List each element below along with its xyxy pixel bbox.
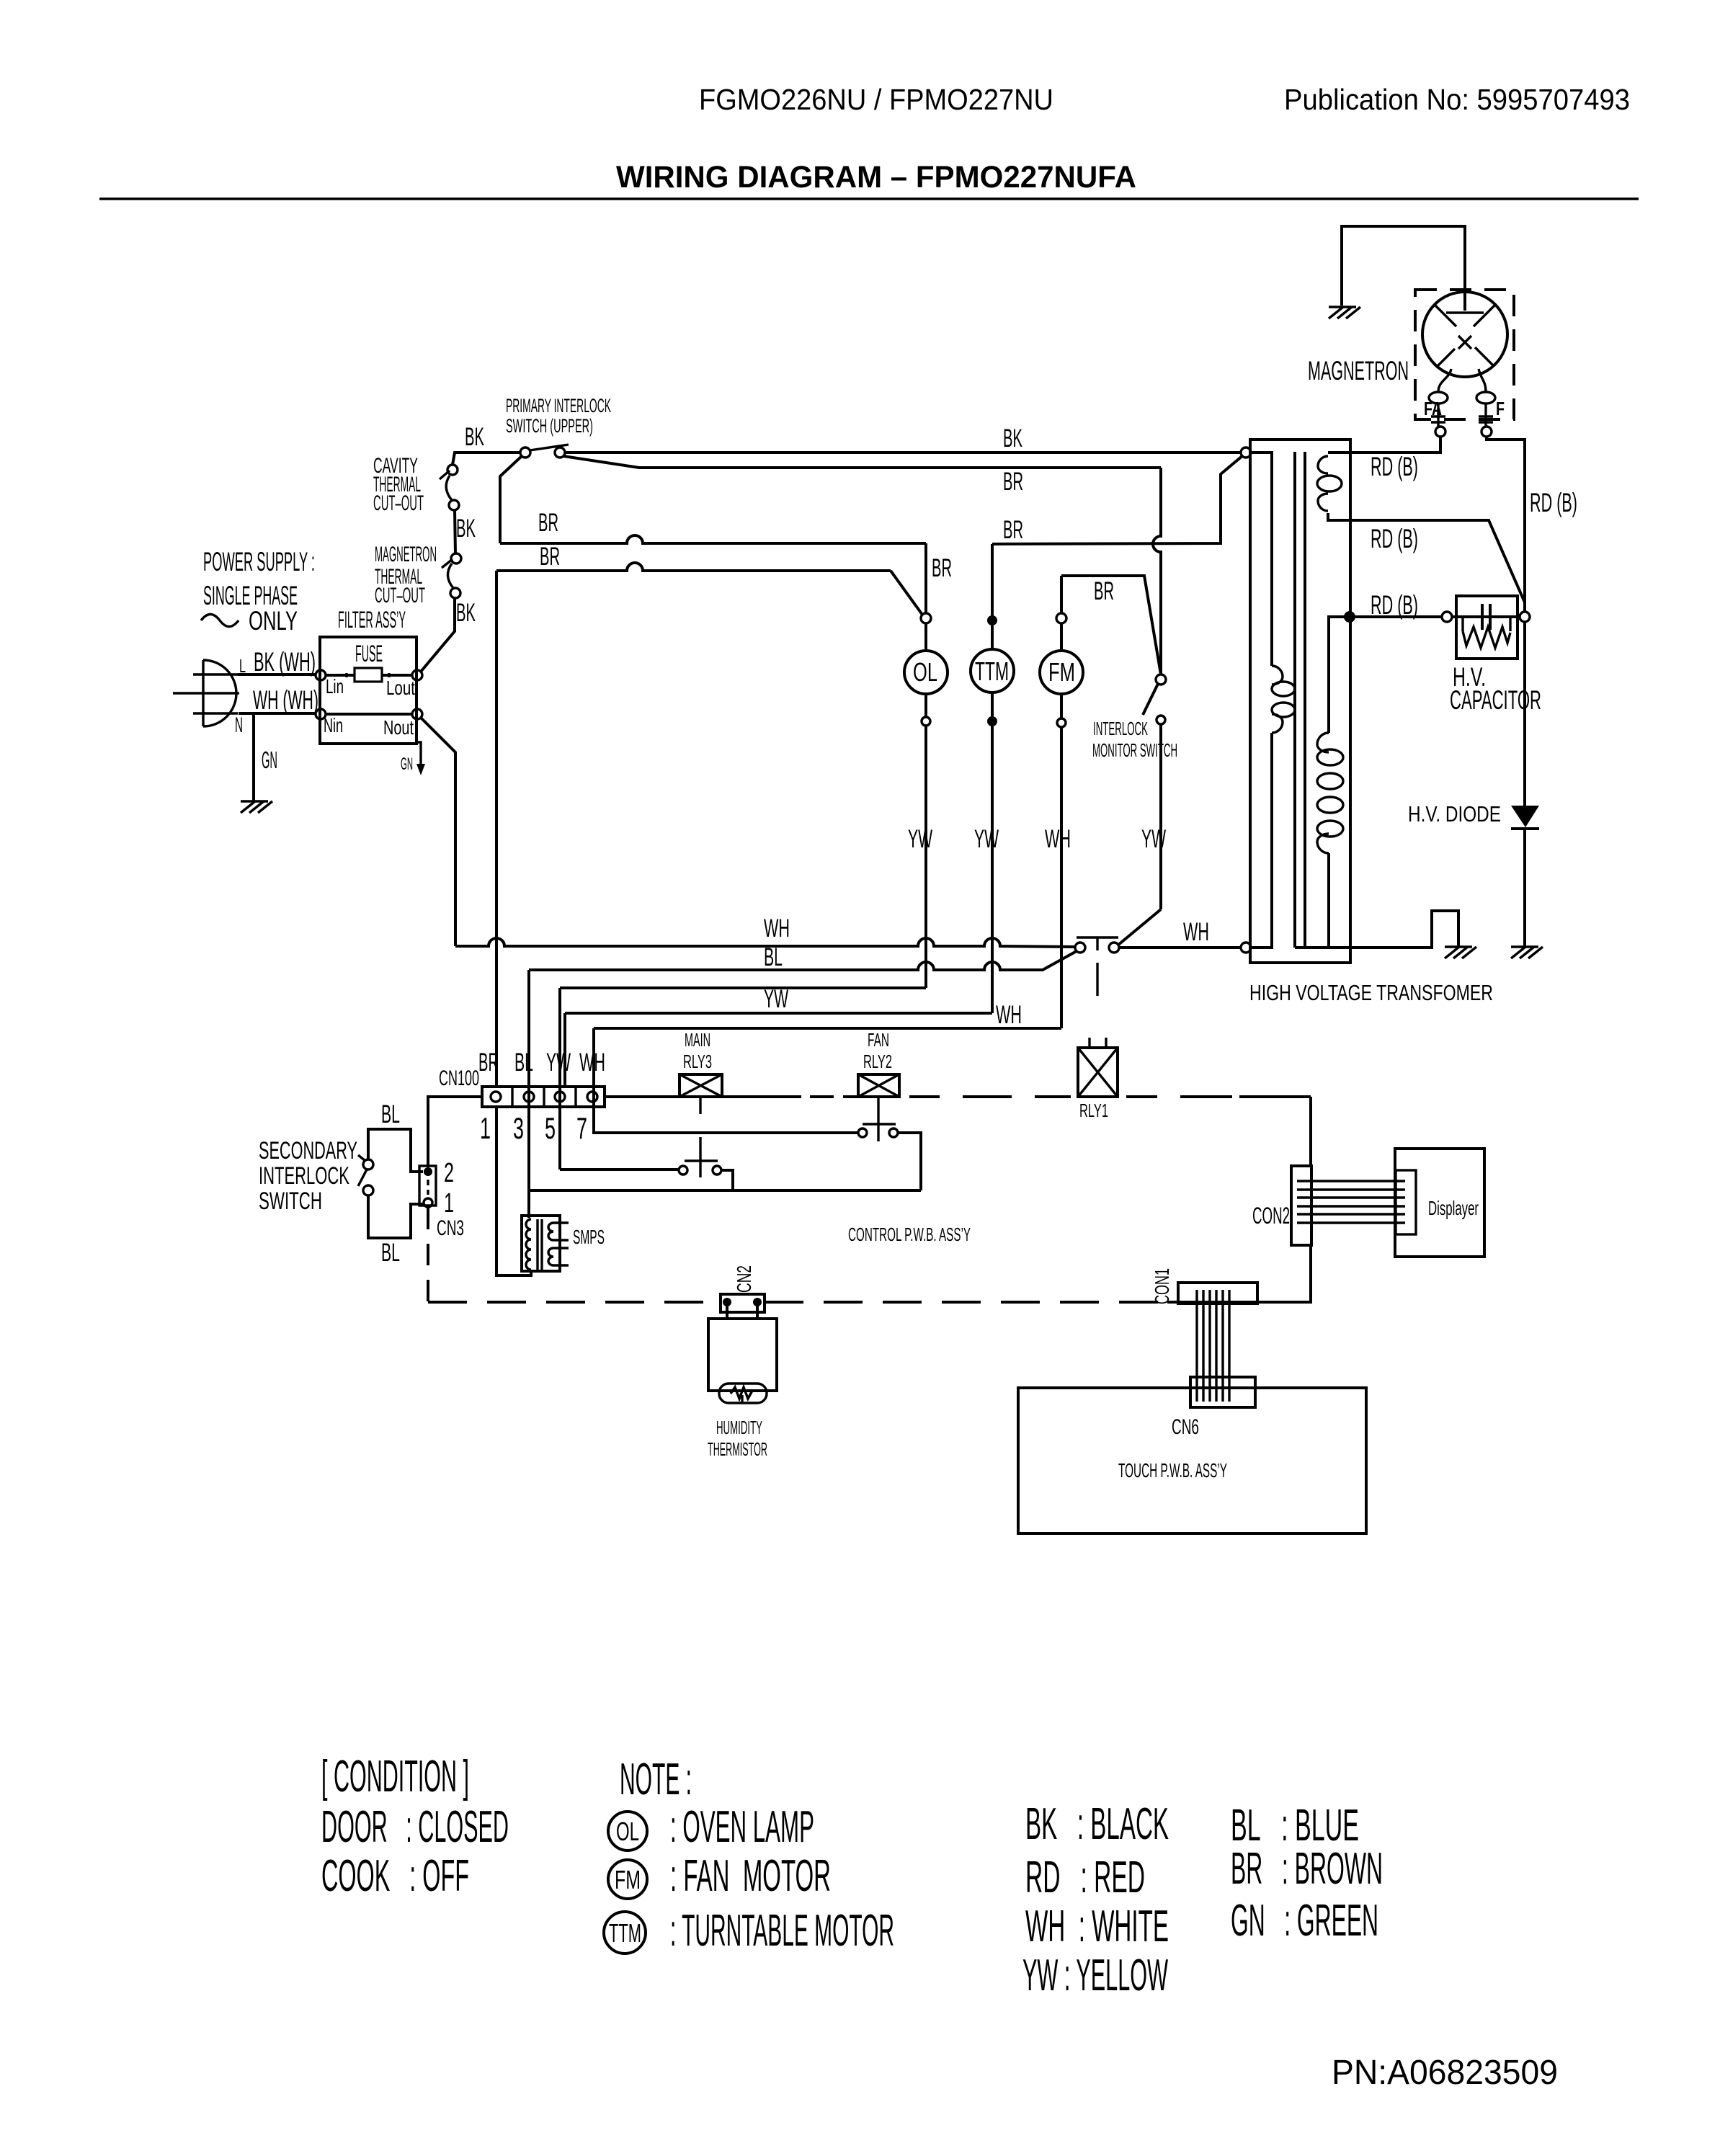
wire pin7 to fan relay contact <box>594 1107 857 1133</box>
svg-text:Displayer: Displayer <box>1428 1197 1479 1219</box>
svg-text:FILTER ASS’Y: FILTER ASS’Y <box>338 607 406 633</box>
svg-text:WH: WH <box>1183 918 1209 946</box>
svg-text:CON1: CON1 <box>1151 1268 1173 1304</box>
wire RLY2 contact output <box>898 1133 921 1190</box>
svg-text:BK (WH): BK (WH) <box>254 647 316 677</box>
magnetron dashed box <box>1415 290 1514 419</box>
svg-text:YW: YW <box>908 825 932 853</box>
displayer box <box>1395 1149 1484 1257</box>
svg-text:: TURNTABLE MOTOR: : TURNTABLE MOTOR <box>670 1906 894 1956</box>
wire contact bus to BL <box>529 1189 733 1192</box>
magnetron thermal cut-out <box>442 553 461 598</box>
svg-text:FAN: FAN <box>868 1029 889 1051</box>
svg-text:POWER SUPPLY :: POWER SUPPLY : <box>203 547 315 576</box>
capacitor right junction <box>1520 612 1530 622</box>
FM riser top <box>1060 576 1063 613</box>
svg-text:GN: GN <box>401 754 413 774</box>
svg-text:OL: OL <box>913 657 937 687</box>
svg-text:NOTE :: NOTE : <box>620 1755 692 1804</box>
WH bus y1313 <box>455 938 1075 947</box>
wire RD(B) capacitor feed <box>1355 615 1442 618</box>
ground at magnetron <box>1329 307 1360 318</box>
svg-text:WH (WH): WH (WH) <box>253 685 318 715</box>
svg-text:Nout: Nout <box>383 716 414 739</box>
svg-text:YW : YELLOW: YW : YELLOW <box>1022 1951 1168 2000</box>
svg-text:BL: BL <box>514 1048 533 1077</box>
svg-text:ONLY: ONLY <box>249 606 298 636</box>
HV diode <box>1511 806 1539 829</box>
magnetron filament legs <box>1438 369 1451 392</box>
wire BR vertical to CN100 pin1 <box>495 571 498 1087</box>
svg-text:INTERLOCK: INTERLOCK <box>259 1162 349 1190</box>
pin labels 1 3 5 7 <box>480 1111 587 1145</box>
wire to diode <box>1523 622 1526 807</box>
svg-text:BR: BR <box>478 1048 499 1077</box>
wire contact to transformer WH <box>1119 946 1242 949</box>
transformer primary terminal top <box>1241 447 1251 458</box>
svg-text:: OVEN LAMP: : OVEN LAMP <box>670 1802 814 1852</box>
svg-text:CUT–OUT: CUT–OUT <box>373 491 424 515</box>
svg-text:SECONDARY: SECONDARY <box>259 1137 357 1164</box>
title rule <box>99 197 1639 200</box>
HV secondary top lead <box>1329 617 1350 733</box>
svg-text:BR: BR <box>1003 516 1023 544</box>
capacitor through wire <box>1452 615 1520 618</box>
humidity thermistor element <box>719 1384 767 1403</box>
connector CN3 <box>419 1166 436 1207</box>
F lead down right side <box>1487 437 1525 612</box>
wire Lout to cutouts diagonal <box>421 597 455 672</box>
RLY2 armature link <box>877 1097 879 1124</box>
wire Nout diagonal to WH bus <box>421 718 455 946</box>
F terminal <box>1481 427 1492 437</box>
ground power supply <box>241 801 272 813</box>
displayer connector <box>1396 1170 1416 1234</box>
svg-text:N: N <box>235 713 243 737</box>
svg-text:FGMO226NU / FPMO227NU: FGMO226NU / FPMO227NU <box>699 83 1053 116</box>
wire CN100 to CN3 <box>428 1097 482 1167</box>
svg-text:H.V. DIODE: H.V. DIODE <box>1408 801 1501 827</box>
svg-text:BL : BLUE: BL : BLUE <box>1231 1801 1359 1850</box>
wire diode to ground <box>1523 829 1526 946</box>
magnetron ground wire <box>1342 226 1465 311</box>
legend TTM <box>604 1906 894 1956</box>
wire between cutouts <box>455 509 455 554</box>
connector CON2 <box>1291 1166 1311 1245</box>
transformer inner bottom bus <box>1295 946 1349 949</box>
transformer primary winding <box>1251 453 1295 948</box>
GN pigtail arrow <box>401 742 425 775</box>
svg-text:FUSE: FUSE <box>355 641 383 667</box>
BL bus y1346 <box>529 951 1077 970</box>
svg-text:RLY1: RLY1 <box>1079 1100 1108 1121</box>
svg-text:GN: GN <box>262 747 277 773</box>
svg-text:BL: BL <box>381 1100 400 1128</box>
connector CN100 <box>482 1087 605 1107</box>
svg-text:DOOR : CLOSED: DOOR : CLOSED <box>321 1802 509 1852</box>
svg-text:[ CONDITION ]: [ CONDITION ] <box>321 1752 469 1801</box>
svg-text:YW: YW <box>974 825 999 853</box>
ribbon CON2 to displayer <box>1297 1181 1405 1223</box>
YW bus y1371 <box>560 986 926 989</box>
svg-text:CN100: CN100 <box>439 1066 479 1090</box>
svg-text:2: 2 <box>444 1158 454 1188</box>
svg-text:TTM: TTM <box>975 656 1009 686</box>
secondary interlock wiring top <box>368 1129 423 1172</box>
label CAVITY THERMAL CUT-OUT <box>373 454 424 515</box>
wire TTM feed y755 to transformer <box>992 455 1243 544</box>
magnetron anode bar <box>1446 311 1484 313</box>
svg-text:YW: YW <box>764 985 788 1013</box>
svg-text:HIGH VOLTAGE TRANSFOMER: HIGH VOLTAGE TRANSFOMER <box>1249 980 1493 1005</box>
terminal Lin <box>316 670 326 680</box>
svg-text:BR: BR <box>538 509 558 537</box>
magnetron tube circle <box>1422 292 1507 377</box>
svg-text:YW: YW <box>1141 825 1166 853</box>
svg-text:BR: BR <box>1094 577 1114 605</box>
RLY3 armature link <box>699 1097 701 1161</box>
svg-text:SWITCH: SWITCH <box>259 1188 322 1215</box>
WH bus y1427 <box>594 1027 1061 1030</box>
connector CN2 <box>721 1294 765 1312</box>
door sense contact <box>1075 937 1119 996</box>
CN100 feeder YW2 <box>563 1013 566 1087</box>
svg-text:1: 1 <box>480 1111 491 1145</box>
relay MAIN RLY3 <box>679 1029 722 1097</box>
FM contact <box>1056 613 1066 623</box>
svg-text:FM: FM <box>615 1865 641 1894</box>
SMPS core <box>538 1219 542 1270</box>
FM riser WH to bus <box>1060 727 1063 1028</box>
RLY2 contact <box>858 1124 898 1141</box>
filament winding top lead RD(B) to FA <box>1328 437 1440 453</box>
relay FAN RLY2 <box>858 1029 899 1097</box>
svg-text:F: F <box>1496 398 1505 419</box>
FA feedthrough <box>1431 404 1445 427</box>
svg-text:BL: BL <box>764 943 783 971</box>
label MAGNETRON THERMAL CUT-OUT <box>375 543 437 607</box>
oven lamp OL <box>904 623 948 726</box>
svg-text:MAGNETRON: MAGNETRON <box>1308 356 1409 386</box>
filament F coil <box>1476 392 1495 404</box>
transformer bottom ground hook <box>1350 911 1458 948</box>
humidity thermistor box <box>708 1319 777 1391</box>
svg-text:WH: WH <box>579 1048 605 1077</box>
svg-text:3: 3 <box>513 1111 524 1145</box>
svg-text:Nin: Nin <box>324 714 343 736</box>
legend FM <box>608 1851 831 1901</box>
svg-text:COOK : OFF: COOK : OFF <box>321 1851 469 1901</box>
legend condition <box>321 1752 509 1901</box>
svg-text:HUMIDITY: HUMIDITY <box>716 1417 762 1438</box>
svg-text:RD (B): RD (B) <box>1371 452 1418 481</box>
svg-text:BR : BROWN: BR : BROWN <box>1231 1844 1383 1894</box>
control board boundary bottom <box>428 1301 1311 1304</box>
HV capacitor box <box>1456 596 1518 659</box>
svg-text:WH: WH <box>764 914 790 943</box>
svg-text:CUT–OUT: CUT–OUT <box>375 584 425 607</box>
primary interlock switch <box>520 445 569 458</box>
RLY3 contact <box>679 1161 721 1177</box>
svg-text:WH : WHITE: WH : WHITE <box>1025 1902 1169 1951</box>
high voltage transformer box <box>1250 440 1350 963</box>
primary interlock switch label <box>506 395 611 437</box>
wire BR from interlock <box>563 456 1161 468</box>
svg-text:Lout: Lout <box>386 677 415 699</box>
connector CON1 <box>1178 1283 1257 1304</box>
monitor switch riser YW <box>1159 724 1162 909</box>
svg-text:SMPS: SMPS <box>573 1226 605 1248</box>
wire GN drop <box>252 713 255 801</box>
CN100 feeder YW <box>558 988 561 1170</box>
magnetron X pattern <box>1435 305 1495 367</box>
terminal Nout <box>412 709 422 719</box>
fuse body <box>355 668 382 682</box>
wire L to filter <box>238 673 316 676</box>
SMPS secondary coils <box>548 1223 553 1265</box>
filament winding bottom lead RD(B) <box>1328 513 1525 602</box>
capacitor left terminal <box>1442 612 1452 622</box>
svg-text:BK: BK <box>456 514 476 543</box>
wire corner to BK bus <box>453 453 520 465</box>
label INTERLOCK MONITOR SWITCH <box>1092 718 1177 761</box>
HV secondary bottom lead <box>1327 853 1330 948</box>
terminal Nin <box>316 709 326 719</box>
blade to door contact <box>1118 909 1161 945</box>
TTM junction dot <box>987 544 997 625</box>
svg-text:WIRING DIAGRAM – FPMO227NUFA: WIRING DIAGRAM – FPMO227NUFA <box>616 160 1136 195</box>
wire BR bus y754 <box>500 535 926 543</box>
svg-text:CN3: CN3 <box>437 1216 464 1240</box>
capacitor plates <box>1482 604 1490 630</box>
svg-text:MAGNETRON: MAGNETRON <box>375 543 437 566</box>
svg-text:INTERLOCK: INTERLOCK <box>1093 718 1148 739</box>
svg-text:CONTROL P.W.B. ASS’Y: CONTROL P.W.B. ASS’Y <box>848 1224 971 1245</box>
OL switch contact <box>921 613 931 623</box>
YW bus y1406 <box>565 1012 992 1015</box>
svg-text:RD (B): RD (B) <box>1371 590 1418 620</box>
fuse wire <box>326 674 412 677</box>
fuse ticks <box>347 673 389 677</box>
svg-text:BL: BL <box>381 1239 400 1267</box>
terminal Lout <box>412 670 422 680</box>
svg-text:SWITCH (UPPER): SWITCH (UPPER) <box>506 415 593 437</box>
svg-text:RLY2: RLY2 <box>863 1051 892 1072</box>
secondary interlock wiring bottom <box>368 1195 423 1238</box>
svg-text:5: 5 <box>545 1111 556 1145</box>
OL riser YW to bus <box>924 726 927 988</box>
legend OL <box>608 1802 814 1852</box>
svg-text:YW: YW <box>546 1048 571 1077</box>
svg-text:CON2: CON2 <box>1252 1203 1290 1229</box>
filament FA coil <box>1429 392 1448 404</box>
svg-text:GN : GREEN: GN : GREEN <box>1231 1896 1378 1946</box>
TTM riser YW to bus <box>991 726 994 1013</box>
touch pwb box <box>1018 1388 1366 1533</box>
interlock monitor switch <box>1143 674 1166 724</box>
ribbon CON1 to CN6 <box>1197 1290 1229 1402</box>
filter assy box <box>320 637 416 744</box>
svg-text:Lin: Lin <box>326 675 344 698</box>
ground at transformer <box>1445 947 1476 958</box>
svg-text:CN2: CN2 <box>733 1265 755 1293</box>
svg-text:WH: WH <box>996 1001 1022 1029</box>
wire interlock diag down <box>500 456 522 543</box>
label H.V. CAPACITOR <box>1450 662 1541 715</box>
wire N to filter <box>239 712 316 715</box>
svg-text:RD : RED: RD : RED <box>1025 1853 1145 1902</box>
svg-text:7: 7 <box>576 1111 587 1145</box>
svg-text:RD (B): RD (B) <box>1371 524 1418 553</box>
svg-text:TOUCH P.W.B. ASS’Y: TOUCH P.W.B. ASS’Y <box>1118 1459 1227 1482</box>
cavity thermal cut-out <box>440 465 459 510</box>
wire BK bus to transformer <box>565 451 1242 454</box>
wire Nin <box>326 713 412 716</box>
fan motor FM <box>1040 623 1083 727</box>
svg-text:CAPACITOR: CAPACITOR <box>1450 685 1541 715</box>
svg-text:THERMISTOR: THERMISTOR <box>708 1438 767 1460</box>
svg-text:FM: FM <box>1048 657 1075 687</box>
F feedthrough <box>1479 404 1493 427</box>
svg-text:BR: BR <box>932 554 952 582</box>
svg-text:OL: OL <box>616 1817 639 1846</box>
FA terminal <box>1435 427 1445 437</box>
OL switch blade <box>891 571 922 615</box>
connector CN6 <box>1190 1377 1255 1407</box>
wire BR bus y792 <box>496 563 891 571</box>
HV secondary winding <box>1317 733 1343 853</box>
svg-text:BK: BK <box>456 599 476 627</box>
power supply labels <box>201 547 315 636</box>
control board boundary left <box>427 1097 429 1302</box>
relay RLY1 <box>1078 1038 1118 1097</box>
CN100 feeder WH <box>592 1028 595 1133</box>
svg-text:PN:A06823509: PN:A06823509 <box>1332 2054 1558 2092</box>
wire pin1 to SMPS <box>496 1107 531 1275</box>
wires CN2 to humidity <box>727 1302 757 1320</box>
svg-text:PRIMARY INTERLOCK: PRIMARY INTERLOCK <box>506 395 611 416</box>
HV secondary junction dot <box>1344 611 1355 623</box>
transformer filament winding <box>1317 456 1342 511</box>
svg-text:TTM: TTM <box>609 1918 641 1948</box>
control board boundary right <box>1309 1097 1312 1304</box>
svg-text:Publication No: 5995707493: Publication No: 5995707493 <box>1284 83 1630 116</box>
svg-text:MAIN: MAIN <box>685 1029 710 1051</box>
capacitor internal resistor <box>1463 617 1510 648</box>
CN100 feeder BL <box>527 970 530 1218</box>
control board boundary top <box>605 1095 1311 1098</box>
OL branch: riser from bus <box>924 543 927 613</box>
SMPS transformer primary coil <box>526 1219 531 1270</box>
transformer primary terminal bottom <box>1241 943 1251 953</box>
svg-text:L: L <box>239 655 246 677</box>
svg-text:BR: BR <box>540 543 560 571</box>
SMPS output stubs <box>553 1223 569 1265</box>
turntable motor TTM <box>971 625 1014 726</box>
svg-text:RD (B): RD (B) <box>1530 488 1577 517</box>
wire RLY3 contact output <box>721 1170 921 1190</box>
svg-text:BK : BLACK: BK : BLACK <box>1025 1799 1169 1849</box>
secondary interlock switch <box>358 1155 373 1195</box>
FM feed wire <box>1061 576 1161 674</box>
plug <box>173 660 239 726</box>
svg-text:BK: BK <box>1003 424 1022 453</box>
svg-text:BR: BR <box>1003 468 1023 496</box>
svg-text:1: 1 <box>444 1188 454 1219</box>
wire pin5 to main relay contact <box>560 1168 678 1171</box>
svg-text:MONITOR SWITCH: MONITOR SWITCH <box>1092 739 1177 761</box>
svg-text:CN6: CN6 <box>1172 1415 1199 1439</box>
svg-text:RLY3: RLY3 <box>683 1051 712 1072</box>
SMPS box <box>522 1216 560 1271</box>
transformer core lines <box>1295 452 1305 948</box>
wire BR down to monitor switch with hop <box>1153 468 1161 674</box>
secondary interlock switch label <box>259 1137 357 1215</box>
svg-text:BK: BK <box>465 423 484 451</box>
ground at diode <box>1511 947 1543 958</box>
svg-text:: FAN MOTOR: : FAN MOTOR <box>670 1851 831 1901</box>
svg-text:WH: WH <box>1045 825 1071 853</box>
